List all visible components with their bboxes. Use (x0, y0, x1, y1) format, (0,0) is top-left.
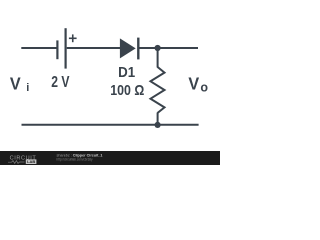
node junction bottom (155, 122, 161, 128)
label Vo (output voltage) (188, 74, 208, 95)
diode anode triangle (120, 38, 136, 58)
diode D1 (120, 38, 138, 60)
diode cathode bar (137, 38, 139, 60)
battery short plate (negative) (56, 40, 58, 59)
resistor R1 zigzag (151, 67, 165, 113)
svg-text:V: V (10, 74, 21, 94)
wire battery to diode (67, 47, 121, 49)
wire resistor to bottom junction (157, 113, 159, 125)
svg-text:V: V (188, 74, 199, 94)
svg-text:D1: D1 (118, 64, 135, 81)
wire top-left (Vi to battery) (21, 47, 57, 49)
footer bar (0, 151, 220, 165)
plus sign (69, 34, 77, 42)
node junction top (diode/resistor/output) (155, 45, 161, 51)
svg-text:100 Ω: 100 Ω (110, 82, 144, 99)
svg-text:o: o (200, 80, 208, 94)
footer logo LAB box (26, 159, 37, 164)
svg-text:http://circuitlab.com/c6r38y: http://circuitlab.com/c6r38y (57, 156, 93, 161)
label Vi (input voltage) (10, 74, 29, 95)
footer logo waveform (8, 161, 25, 164)
svg-text:i: i (26, 82, 29, 94)
svg-text:LAB: LAB (27, 159, 35, 164)
wire junction down to resistor (157, 48, 159, 68)
wire diode to output (139, 47, 198, 49)
battery long plate (positive) (64, 28, 66, 68)
wire bottom rail (22, 124, 199, 126)
battery V1 (2 V source) (57, 28, 76, 68)
svg-text:2 V: 2 V (51, 74, 70, 91)
